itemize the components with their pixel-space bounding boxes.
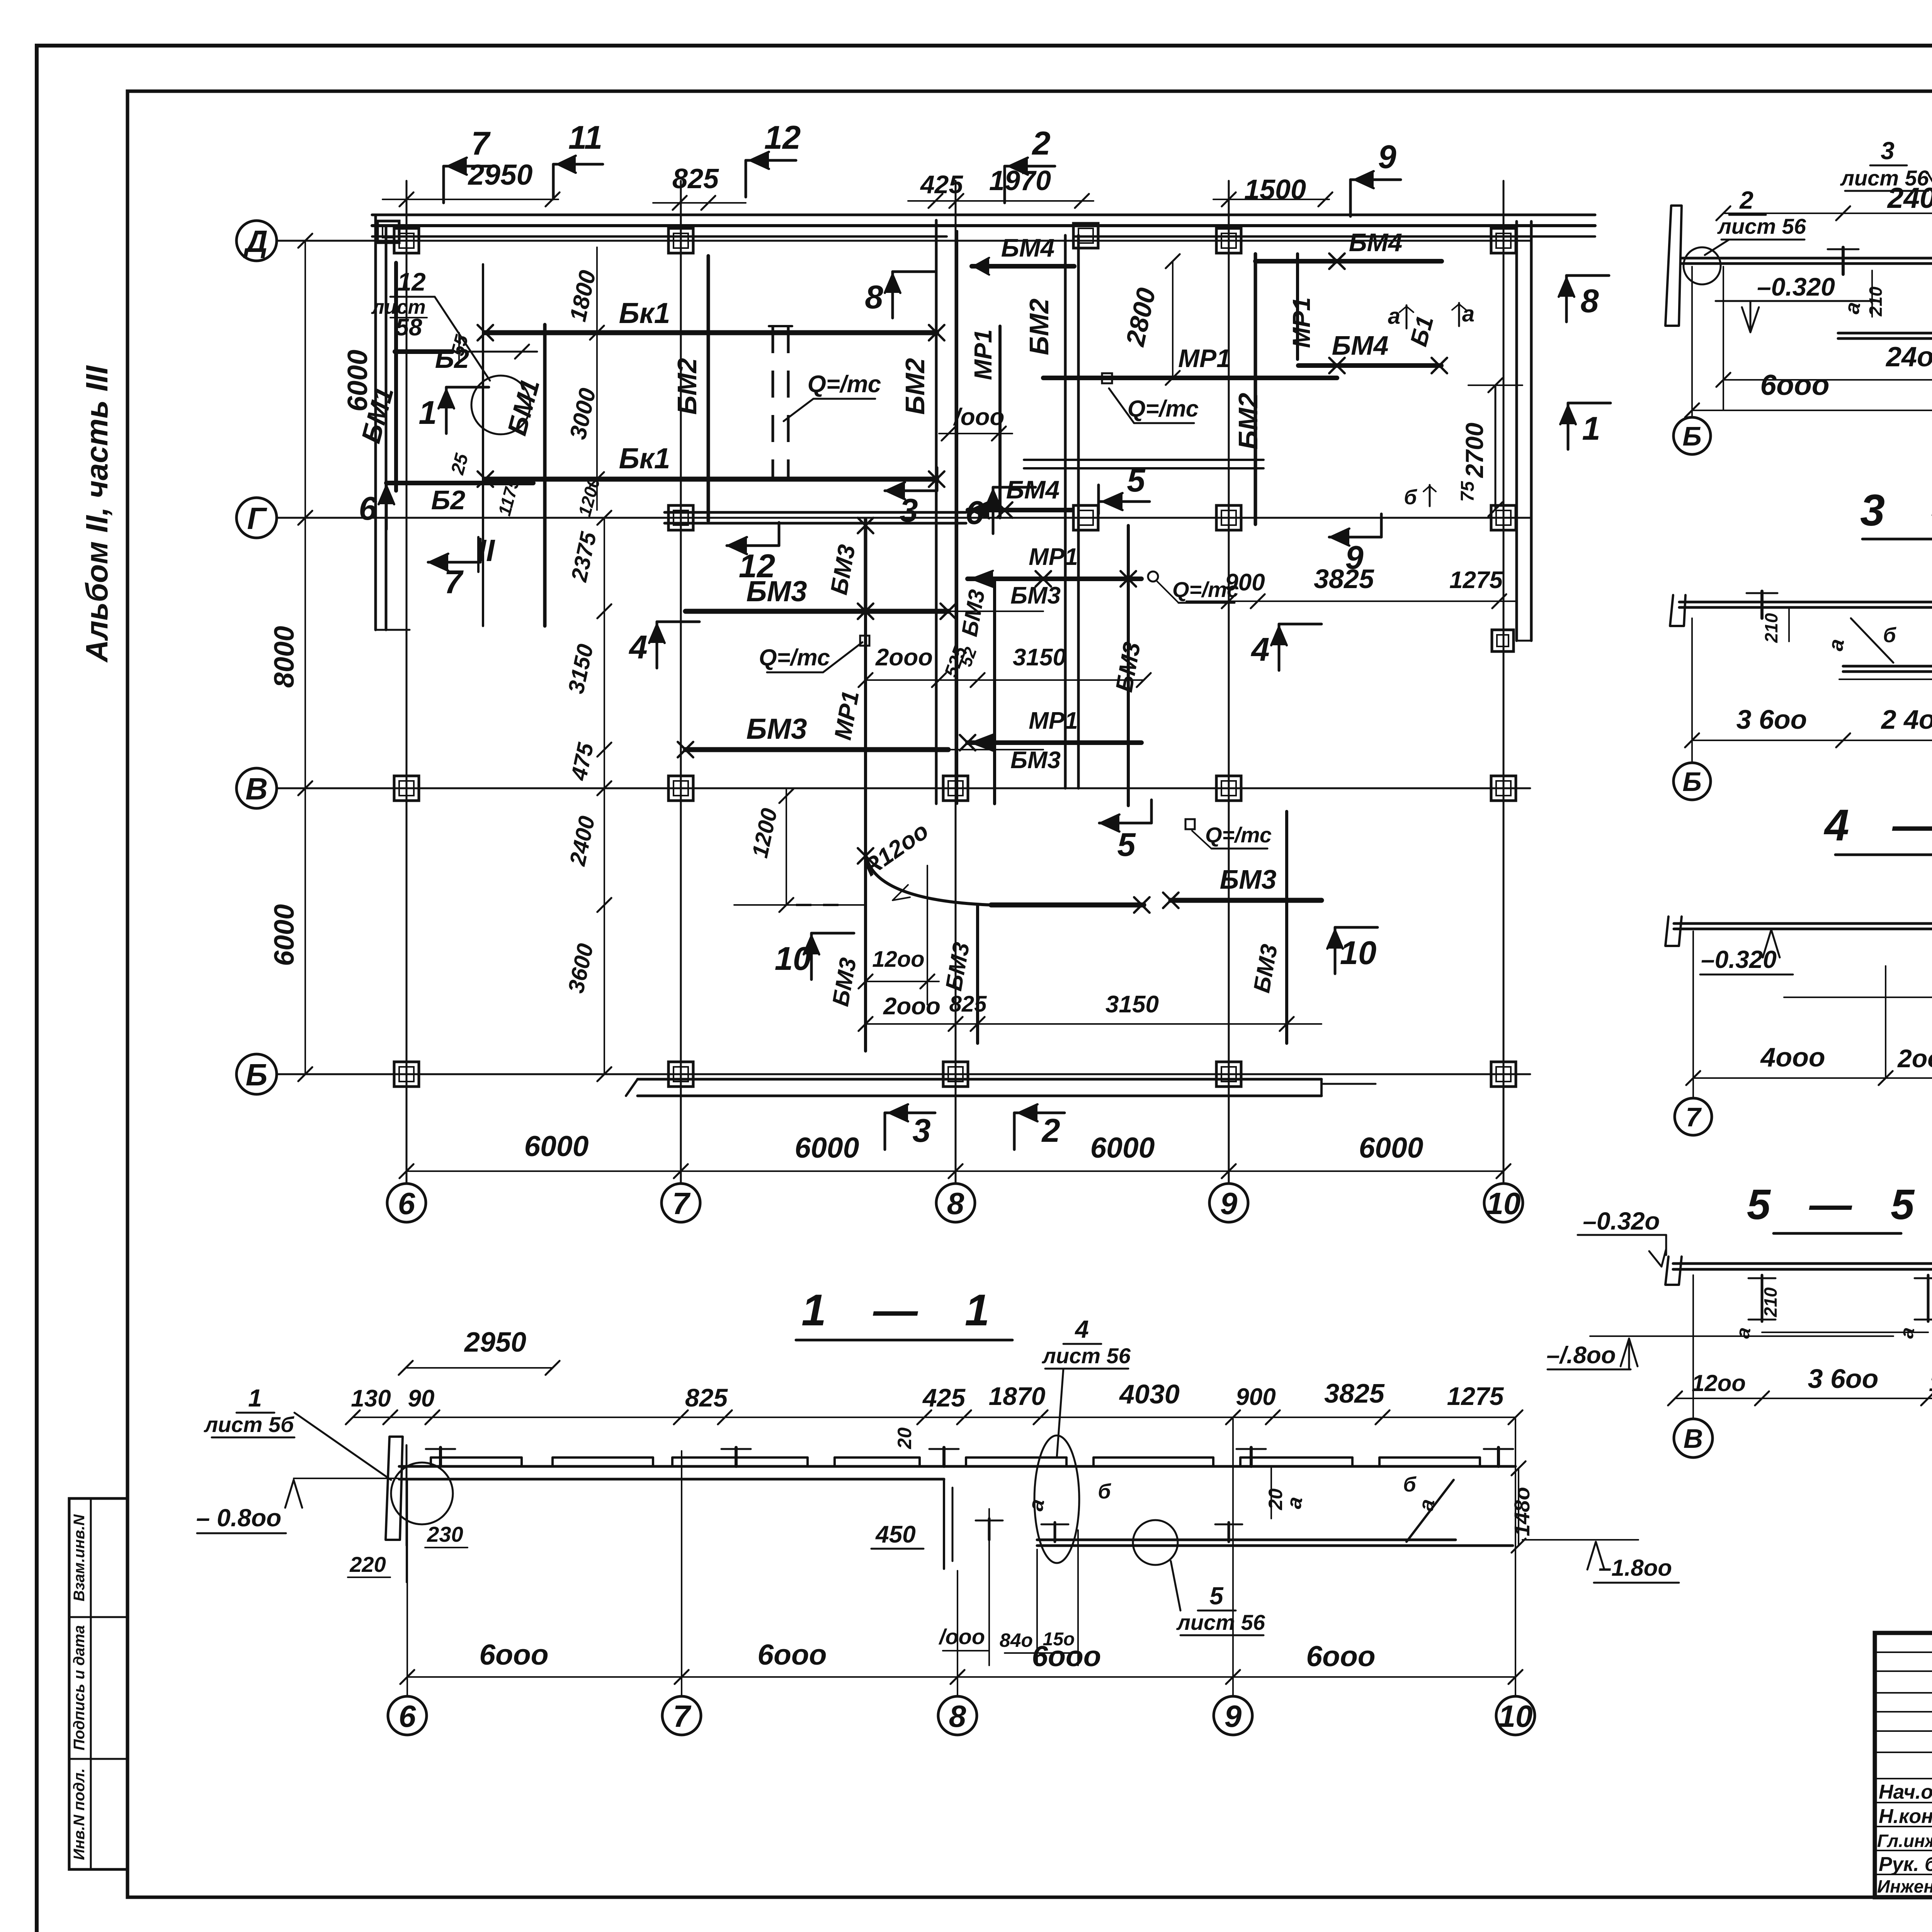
- section mark 6 up mid: [993, 486, 1036, 489]
- svg-text:6ооо: 6ооо: [1032, 1640, 1101, 1672]
- svg-text:20: 20: [894, 1427, 915, 1449]
- section 5-5 bottom dim line: [1675, 1398, 1932, 1399]
- section mark 9 top: [1349, 180, 1352, 216]
- svg-text:2ооо: 2ооо: [875, 644, 933, 671]
- svg-text:6: 6: [399, 1699, 416, 1733]
- axis circle B: [236, 1054, 277, 1094]
- beam BM3 vertical x2920: [1127, 526, 1130, 806]
- plan column axis line 10: [1503, 181, 1505, 1184]
- svg-text:1: 1: [1582, 410, 1600, 447]
- beam MP1 long horizontal: [1043, 376, 1337, 380]
- svg-text:лист 5б: лист 5б: [203, 1412, 294, 1437]
- svg-text:6ооо: 6ооо: [1306, 1640, 1375, 1672]
- svg-text:148о: 148о: [1510, 1487, 1534, 1536]
- svg-text:Рук. бр.: Рук. бр.: [1879, 1853, 1932, 1876]
- beam BM3 no.1 G-zone: [685, 609, 948, 614]
- section 5-5 lower dim line: [1762, 1332, 1928, 1333]
- svg-text:Инженер: Инженер: [1877, 1876, 1932, 1896]
- svg-text:12оо: 12оо: [872, 947, 924, 972]
- svg-text:МР1: МР1: [1029, 707, 1078, 734]
- section 1-1 bottom dim line: [407, 1676, 1515, 1678]
- section 4-4 bottom dim line: [1693, 1077, 1932, 1079]
- beam with R1200 arc: [864, 853, 867, 905]
- section mark 1 up right outside: [1568, 402, 1611, 405]
- svg-text:3825: 3825: [1324, 1378, 1385, 1408]
- beam BM1 right vertical: [543, 325, 547, 626]
- svg-text:Гл.инж,пр.: Гл.инж,пр.: [1877, 1831, 1932, 1851]
- section 1-1 mid detail ellipse: [1034, 1435, 1079, 1563]
- svg-text:6: 6: [359, 490, 377, 527]
- svg-text:В: В: [1684, 1423, 1703, 1454]
- section 2-2 left wall hatch: [1665, 206, 1682, 326]
- svg-text:90: 90: [408, 1385, 435, 1412]
- axis circle 6: [387, 1184, 426, 1222]
- title block signature rows: [1875, 1651, 1932, 1653]
- svg-text:12: 12: [764, 119, 801, 156]
- svg-text:5: 5: [1117, 827, 1136, 863]
- axis circle 7: [662, 1184, 700, 1222]
- beam cluster MP1/BM3 right no.1: [968, 577, 1141, 581]
- svg-text:4 — 4: 4 — 4: [1824, 801, 1932, 850]
- section 5-5 hangers: [1761, 1275, 1764, 1321]
- beam BM3 vertical below V x3330: [1285, 811, 1288, 1043]
- section 1-1 lower hangers: [1054, 1522, 1056, 1542]
- plan column axis line 9: [1228, 181, 1230, 1184]
- svg-text:лист 56: лист 56: [1717, 214, 1806, 238]
- svg-text:20: 20: [1265, 1488, 1286, 1510]
- svg-text:–1.8оо: –1.8оо: [1599, 1555, 1672, 1581]
- svg-text:425: 425: [922, 1383, 966, 1412]
- svg-text:Альбом II, часть III: Альбом II, часть III: [80, 365, 114, 663]
- section 3-3 bottom dim line: [1692, 740, 1932, 741]
- section 1-1 axis circle 9: [1214, 1696, 1252, 1735]
- svg-text:1: 1: [248, 1384, 262, 1412]
- section 4-4 left beam: [1674, 922, 1932, 925]
- dashed column with Q=1tc callout: [772, 326, 774, 480]
- svg-text:лист 56: лист 56: [1041, 1344, 1131, 1368]
- svg-text:МР1: МР1: [969, 329, 997, 380]
- section 2-2 hanger ticks: [1842, 247, 1845, 274]
- svg-text:2 4оо: 2 4оо: [1881, 704, 1932, 735]
- svg-text:Б: Б: [1682, 421, 1702, 451]
- svg-text:3 — 3: 3 — 3: [1860, 486, 1932, 535]
- section mark 3 bottom: [884, 1113, 886, 1150]
- axis circle G: [236, 498, 277, 538]
- column square left wall row D: [378, 221, 399, 243]
- svg-text:4: 4: [628, 629, 647, 666]
- section 3-3 hangers: [1760, 591, 1764, 618]
- section 3-3 lower beam: [1843, 665, 1932, 668]
- svg-text:Q=/тс: Q=/тс: [759, 645, 830, 670]
- svg-text:6000: 6000: [1090, 1131, 1155, 1164]
- beam BM3 vertical above no.1: [864, 519, 867, 613]
- inner wall horizontal pair under MP1: [1024, 459, 1264, 461]
- svg-text:230: 230: [427, 1522, 463, 1546]
- svg-text:7: 7: [673, 1699, 692, 1733]
- svg-text:Бк1: Бк1: [619, 442, 670, 474]
- axis circle D: [236, 221, 277, 261]
- svg-text:8: 8: [865, 279, 883, 316]
- svg-text:220: 220: [349, 1552, 386, 1577]
- section 1-1 lower right beam: [1037, 1539, 1456, 1541]
- section 1-1 hanger I-beams: [439, 1447, 442, 1466]
- monorail slab below row B: [638, 1078, 1321, 1081]
- svg-text:Q=/тс: Q=/тс: [808, 371, 881, 398]
- section 2-2 top dim line: [1723, 213, 1932, 214]
- beam BM4 mid-left: [972, 264, 1074, 269]
- svg-text:МР1: МР1: [1287, 297, 1315, 348]
- svg-text:2ооо: 2ооо: [883, 993, 940, 1020]
- svg-text:5: 5: [1209, 1582, 1224, 1610]
- section 2-2 lower beam: [1838, 332, 1932, 335]
- left margin stamp table: [69, 1498, 128, 1869]
- plan row axis line D: [277, 240, 1530, 242]
- beam BK1 lower: [485, 477, 937, 482]
- plan column axis line 8: [955, 181, 957, 1184]
- plan row axis line G: [277, 517, 1530, 519]
- axis circle V: [236, 768, 277, 808]
- section mark 8 up middle: [893, 270, 935, 273]
- section mark 10 up left: [811, 932, 854, 935]
- right wall of building: [1515, 221, 1518, 641]
- svg-text:2400: 2400: [1887, 182, 1932, 214]
- section 5-5 beam: [1673, 1262, 1932, 1265]
- plan column axis line 6: [406, 181, 408, 1184]
- svg-text:4: 4: [1250, 631, 1269, 668]
- svg-text:900: 900: [1236, 1384, 1276, 1410]
- svg-text:24оо: 24оо: [1885, 342, 1932, 372]
- svg-text:6: 6: [398, 1186, 415, 1221]
- svg-text:10: 10: [1498, 1699, 1533, 1733]
- svg-text:БМ4: БМ4: [1001, 233, 1054, 262]
- dim 2700 rotated with bracket: [1495, 385, 1497, 509]
- svg-text:БМ2: БМ2: [900, 358, 930, 415]
- section 1-1 rail blocks: [431, 1456, 522, 1459]
- svg-text:6ооо: 6ооо: [757, 1638, 827, 1671]
- svg-text:Q=/тс: Q=/тс: [1128, 396, 1199, 422]
- svg-text:12оо: 12оо: [1929, 1370, 1932, 1396]
- svg-text:/ооо: /ооо: [938, 1624, 985, 1649]
- svg-text:1 — 1: 1 — 1: [801, 1286, 1007, 1335]
- plan row axis line V: [277, 787, 1530, 789]
- svg-text:6ооо: 6ооо: [1760, 369, 1829, 401]
- section mark 10 up right: [1335, 926, 1378, 929]
- svg-text:450: 450: [875, 1521, 915, 1548]
- section 1-1 brace right: [1406, 1480, 1454, 1542]
- svg-text:6000: 6000: [524, 1130, 589, 1162]
- section 1-1 mid support: [943, 1479, 945, 1569]
- section 3-3 left support: [1670, 595, 1685, 626]
- beam cluster MP1/BM3 right no.2: [968, 740, 1141, 745]
- svg-text:БМ3: БМ3: [1010, 747, 1061, 774]
- svg-text:8: 8: [947, 1186, 964, 1221]
- svg-text:2950: 2950: [464, 1327, 526, 1358]
- section 2-2 bottom dim line: [1692, 410, 1932, 411]
- section mark 12 mid: [727, 544, 779, 547]
- section mark 6 up left: [386, 482, 429, 485]
- section mark 4 up right: [1279, 623, 1321, 626]
- beam BM2 vertical at col9: [1254, 254, 1257, 524]
- svg-text:Инв.N подл.: Инв.N подл.: [71, 1768, 88, 1860]
- svg-text:12: 12: [397, 267, 426, 296]
- svg-text:БМ3: БМ3: [1010, 582, 1061, 609]
- svg-text:Взам.инв.N: Взам.инв.N: [71, 1514, 88, 1601]
- svg-text:2700: 2700: [1461, 423, 1488, 478]
- beam BM4 top right: [1255, 259, 1442, 264]
- svg-text:7: 7: [1686, 1102, 1702, 1132]
- svg-text:Б2: Б2: [431, 485, 466, 515]
- section mark 7 top: [442, 166, 445, 203]
- svg-text:210: 210: [1866, 286, 1886, 316]
- svg-text:3: 3: [900, 492, 918, 529]
- svg-text:Бк1: Бк1: [619, 297, 670, 329]
- svg-text:9: 9: [1220, 1186, 1238, 1221]
- beam BM3 vertical below V x2530: [976, 905, 979, 1043]
- section mark 9 left mid: [1329, 536, 1381, 539]
- beam B2 upper: [395, 349, 452, 354]
- svg-text:6000: 6000: [795, 1131, 859, 1164]
- beam MP1 vertical mid: [864, 613, 867, 854]
- svg-text:Б: Б: [1682, 767, 1702, 797]
- svg-text:1275: 1275: [1447, 1382, 1504, 1410]
- svg-text:1870: 1870: [989, 1382, 1046, 1410]
- axis circle 8: [936, 1184, 975, 1222]
- svg-text:БМ3: БМ3: [1220, 864, 1277, 895]
- svg-text:б: б: [1883, 624, 1896, 647]
- svg-text:Н.контр,: Н.контр,: [1879, 1805, 1932, 1828]
- svg-text:Нач.отд: Нач.отд: [1879, 1781, 1932, 1803]
- svg-text:825: 825: [672, 163, 719, 194]
- svg-text:7: 7: [672, 1186, 691, 1221]
- svg-text:БМ4: БМ4: [1332, 330, 1389, 361]
- svg-text:–0.320: –0.320: [1757, 272, 1835, 301]
- svg-text:лист 56: лист 56: [1176, 1610, 1265, 1634]
- svg-text:Подпись и дата: Подпись и дата: [71, 1625, 88, 1750]
- section 5-5 datum -1.800 line: [1590, 1335, 1893, 1337]
- beam BM4 mid right: [1298, 363, 1441, 368]
- svg-text:3150: 3150: [1013, 644, 1066, 671]
- svg-text:1275: 1275: [1449, 567, 1503, 594]
- svg-text:3: 3: [912, 1112, 930, 1149]
- svg-text:11: 11: [568, 119, 602, 156]
- svg-text:7: 7: [471, 125, 491, 162]
- section mark 8 up right outside: [1566, 274, 1609, 277]
- svg-text:3150: 3150: [1105, 991, 1159, 1018]
- svg-text:5 — 5: 5 — 5: [1747, 1181, 1928, 1228]
- svg-text:7: 7: [444, 564, 464, 600]
- svg-text:8000: 8000: [269, 626, 300, 688]
- svg-text:2: 2: [1041, 1112, 1060, 1149]
- svg-text:3 6оо: 3 6оо: [1736, 704, 1807, 735]
- section 1-1 axis circle 7: [662, 1696, 701, 1735]
- beam MP1 vertical x2588: [998, 326, 1002, 518]
- bottom dimension line of plan: [406, 1170, 1503, 1172]
- svg-text:БМ3: БМ3: [746, 575, 807, 607]
- svg-text:/ооо: /ооо: [953, 404, 1005, 430]
- svg-text:4: 4: [1074, 1315, 1089, 1343]
- section mark 3 left upper: [885, 490, 937, 492]
- svg-text:825: 825: [685, 1383, 728, 1412]
- section 3-3 axis circle B: [1673, 763, 1711, 800]
- svg-text:8: 8: [1580, 283, 1599, 320]
- column square on wall G x2810: [1073, 505, 1098, 530]
- axis circle 9: [1209, 1184, 1248, 1222]
- left vertical dimension chain: [304, 241, 306, 1074]
- section 1-1 top dim line: [353, 1417, 1515, 1418]
- beam BM3 vertical right x2574: [993, 579, 996, 804]
- detail circle top-left wall: [471, 376, 530, 434]
- section 1-1 left support wall: [386, 1437, 403, 1540]
- svg-text:БМ4: БМ4: [1349, 228, 1402, 257]
- svg-text:4030: 4030: [1119, 1379, 1180, 1409]
- svg-text:3825: 3825: [1314, 564, 1374, 594]
- column square on wall top x2810: [1073, 223, 1098, 248]
- svg-text:БМ3: БМ3: [746, 713, 807, 745]
- top wall of building: [372, 214, 1595, 216]
- column squares at grid intersections: [394, 228, 419, 253]
- svg-text:Q=/тс: Q=/тс: [1205, 823, 1272, 847]
- section mark 2 top: [1003, 166, 1006, 203]
- section 3-3 braces: [1851, 618, 1893, 663]
- svg-text:МР1: МР1: [1178, 344, 1231, 372]
- svg-text:900: 900: [1225, 569, 1265, 596]
- dim 1200 vertical V-zone: [786, 788, 787, 905]
- section mark 7 left under G: [428, 561, 480, 564]
- section 1-1 axis circle 8: [938, 1696, 977, 1735]
- svg-text:210: 210: [1761, 613, 1781, 643]
- svg-text:425: 425: [920, 170, 963, 199]
- section 5-5 axis circle V: [1674, 1419, 1713, 1458]
- svg-text:–/.8оо: –/.8оо: [1546, 1342, 1616, 1369]
- svg-text:1500: 1500: [1244, 174, 1306, 205]
- svg-text:БМ4: БМ4: [1006, 475, 1060, 504]
- svg-text:–0.32о: –0.32о: [1583, 1207, 1660, 1235]
- section 1-1 main beam: [399, 1465, 1515, 1468]
- beam BM3 no.2: [685, 747, 948, 752]
- left wall of building: [374, 215, 377, 630]
- svg-text:Д: Д: [243, 224, 268, 259]
- svg-text:б: б: [1403, 1473, 1417, 1496]
- plan row axis line B: [277, 1073, 1530, 1075]
- wall along row G: [665, 511, 966, 514]
- svg-text:В: В: [245, 772, 268, 806]
- svg-text:84о: 84о: [1000, 1629, 1033, 1651]
- svg-text:Г: Г: [247, 501, 267, 536]
- callout Q=1tc no.4 small circle: [1148, 571, 1158, 582]
- beam BK1 upper: [485, 330, 937, 335]
- wall pair right of column 8: [935, 220, 938, 804]
- svg-text:б: б: [1098, 1480, 1111, 1503]
- svg-text:3 6оо: 3 6оо: [1808, 1364, 1879, 1394]
- beam BM3 lower right: [1171, 898, 1321, 903]
- beam BM1 left vertical: [394, 263, 398, 491]
- svg-text:БМ2: БМ2: [1024, 299, 1054, 355]
- svg-text:6000: 6000: [1359, 1131, 1423, 1164]
- wall pair at x2760: [1064, 235, 1067, 788]
- svg-text:2: 2: [1031, 125, 1050, 162]
- left middle vertical dim chain G-B: [604, 518, 605, 1074]
- section mark 2 bottom: [1013, 1113, 1016, 1150]
- dim row 2000 825 3150 bottom: [866, 1023, 1321, 1025]
- dim row 900 3825 1275: [1186, 600, 1517, 602]
- svg-text:825: 825: [949, 992, 987, 1017]
- svg-text:1: 1: [418, 395, 437, 431]
- svg-text:9: 9: [1378, 139, 1396, 175]
- beam MP1 vertical x3358: [1296, 254, 1299, 359]
- svg-text:– 0.8оо: – 0.8оо: [196, 1504, 282, 1532]
- svg-text:БМ2: БМ2: [1233, 393, 1263, 450]
- section 2-2 top beam: [1682, 257, 1932, 260]
- svg-text:МР1: МР1: [1029, 544, 1078, 570]
- section mark 12 top: [745, 160, 747, 197]
- beam BM3 vertical below V x2240: [864, 905, 867, 1051]
- beam B2 lower: [386, 481, 533, 485]
- svg-text:а: а: [1388, 304, 1400, 329]
- beam BM2 vertical at col7+: [707, 256, 710, 521]
- section 1-1 axis circle 6: [388, 1696, 427, 1735]
- main title block outer: [1875, 1633, 1932, 1897]
- section 4-4 axis circle 7: [1675, 1098, 1712, 1135]
- callout Q=1tc no.5: [1185, 819, 1195, 829]
- svg-text:5: 5: [1127, 462, 1146, 499]
- beam BM4 under G: [968, 508, 1072, 512]
- svg-text:Б: Б: [246, 1058, 268, 1092]
- svg-text:а: а: [1462, 301, 1475, 327]
- top dimension line segments: [383, 199, 558, 200]
- axis circle 10: [1484, 1184, 1523, 1222]
- section mark 5 left mid: [1099, 822, 1151, 825]
- svg-text:10: 10: [1340, 935, 1377, 971]
- svg-text:8: 8: [949, 1699, 966, 1733]
- svg-text:б: б: [1404, 486, 1417, 509]
- svg-text:3: 3: [1881, 137, 1895, 165]
- section 2-2 left detail circle: [1684, 247, 1721, 284]
- section 1-1 axis circle 10: [1496, 1696, 1535, 1735]
- plan column axis line 7: [680, 181, 682, 1184]
- section 1-1 left detail circle: [391, 1463, 453, 1524]
- section mark 1 up left: [446, 386, 489, 389]
- svg-text:6ооо: 6ооо: [479, 1638, 548, 1671]
- svg-text:12оо: 12оо: [1692, 1370, 1746, 1396]
- section mark 5 left upper: [1097, 485, 1100, 514]
- svg-text:130: 130: [351, 1385, 391, 1412]
- svg-text:2950: 2950: [468, 158, 533, 191]
- section 4-4 vertical grid lines: [1692, 931, 1694, 1097]
- svg-text:2ооо: 2ооо: [1897, 1044, 1932, 1073]
- svg-text:2: 2: [1739, 186, 1753, 214]
- svg-text:4ооо: 4ооо: [1760, 1042, 1825, 1072]
- column square right wall end: [1492, 630, 1514, 651]
- svg-text:10: 10: [1486, 1186, 1521, 1221]
- svg-text:10: 10: [775, 940, 811, 977]
- svg-text:9: 9: [1225, 1699, 1242, 1733]
- svg-text:II: II: [478, 533, 495, 568]
- svg-text:БМ2: БМ2: [672, 358, 702, 415]
- svg-text:75: 75: [1458, 481, 1478, 502]
- section 3-3 top beam: [1679, 601, 1932, 604]
- svg-text:6000: 6000: [269, 904, 300, 966]
- svg-text:210: 210: [1760, 1287, 1781, 1317]
- section 2-2 axis circle B: [1673, 417, 1711, 454]
- section mark 4 up left: [657, 621, 699, 623]
- section 1-1 vertical grid lines: [406, 1481, 408, 1696]
- section 1-1 detail circle 5: [1133, 1520, 1178, 1565]
- section 4-4 datum line: [1784, 997, 1932, 998]
